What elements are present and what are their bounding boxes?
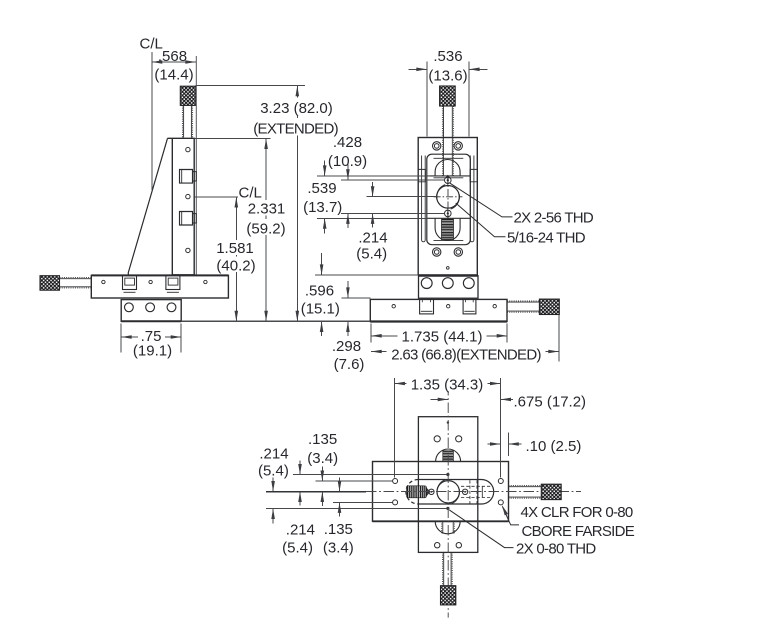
- block-top extension line: [315, 274, 419, 276]
- 1.35 arrowheads: [394, 382, 405, 386]
- 3.23 dimension line: [296, 86, 298, 322]
- svg-text:(EXTENDED): (EXTENDED): [253, 121, 338, 138]
- BV .214 top arrowheads: [298, 464, 302, 475]
- svg-text:(5.4): (5.4): [282, 539, 313, 556]
- base bar (side): [91, 275, 228, 298]
- .596 arrows shafts: [321, 253, 323, 274]
- body mounting holes top: [433, 142, 441, 150]
- stadium slot: [418, 480, 494, 505]
- corner clearance holes 4X: [393, 479, 398, 484]
- svg-text:(59.2): (59.2): [246, 220, 285, 237]
- C/L extension line to circle: [366, 196, 436, 198]
- svg-text:(13.6): (13.6): [428, 68, 467, 85]
- svg-text:(3.4): (3.4): [323, 539, 354, 556]
- svg-text:(3.4): (3.4): [307, 450, 338, 467]
- BV .214 bottom arrowheads: [271, 481, 275, 492]
- lower block with 3 holes: [121, 300, 181, 322]
- 2-56 hole marker top: [446, 473, 449, 476]
- 1.735 dimension line: [371, 335, 507, 337]
- .428 arrow shafts: [347, 165, 349, 180]
- 2.331 arrowheads: [264, 139, 268, 150]
- .536 extension lines: [426, 62, 428, 137]
- lead screw inside dome: [442, 138, 453, 176]
- 2.63 arrowheads: [371, 350, 382, 354]
- .214 bottom arrow shafts: [272, 478, 274, 492]
- svg-text:2.331: 2.331: [248, 201, 286, 218]
- left edge notch: [418, 169, 425, 181]
- svg-text:(15.1): (15.1): [301, 301, 340, 318]
- leader 5/16-24: [456, 203, 506, 237]
- 1.735 extension lines: [370, 324, 372, 343]
- horizontal centerline: [266, 491, 581, 493]
- 2.63 right extension line: [558, 315, 560, 362]
- vertical bracket plate (bottom view): [418, 417, 477, 553]
- 2.63 dimension line: [371, 351, 559, 353]
- .135 top arrow shafts: [321, 467, 323, 481]
- .75 extension lines: [120, 324, 122, 353]
- 5/16-24 threaded hole: [437, 186, 460, 209]
- svg-text:4X CLR FOR 0-80: 4X CLR FOR 0-80: [521, 504, 633, 521]
- .214 arrow shafts: [372, 182, 374, 196]
- 2.331 dimension line: [265, 139, 267, 322]
- 2-56 tapped hole upper: [445, 177, 452, 184]
- .214 top arrow shafts: [299, 461, 301, 475]
- base (front): [370, 299, 507, 321]
- .675 arrowheads: [438, 398, 449, 402]
- 1.581 arrowheads: [235, 197, 239, 208]
- spring pocket arc top: [436, 449, 461, 462]
- bracket holes top pair: [434, 436, 440, 442]
- svg-text:(40.2): (40.2): [216, 258, 255, 275]
- spring pocket U: [435, 218, 460, 240]
- 3-hole block: [419, 276, 479, 299]
- carriage top step line: [434, 157, 464, 159]
- svg-text:CBORE FARSIDE: CBORE FARSIDE: [522, 523, 635, 540]
- svg-text:.539: .539: [307, 180, 336, 197]
- svg-text:.214: .214: [358, 229, 387, 246]
- small holes on base: [392, 305, 395, 308]
- flexure slot left: [422, 156, 426, 242]
- base plate (bottom view): [373, 462, 509, 522]
- threaded shaft below knob: [442, 106, 453, 138]
- svg-text:.675 (17.2): .675 (17.2): [514, 393, 587, 410]
- .298 arrow shafts: [347, 281, 349, 297]
- small holes on base: [102, 280, 105, 283]
- knurled knob top (left view): [180, 86, 195, 105]
- svg-text:1.735 (44.1): 1.735 (44.1): [402, 328, 483, 345]
- .539 arrow shafts: [324, 161, 326, 176]
- .539 arrowheads: [323, 165, 327, 176]
- C/L extension line (left view): [151, 52, 153, 190]
- .10 arrowheads: [490, 442, 501, 446]
- carriage upper shelf: [427, 175, 471, 177]
- drive screw (hatched): [426, 488, 430, 497]
- svg-text:2.63 (66.8)(EXTENDED): 2.63 (66.8)(EXTENDED): [391, 346, 541, 363]
- svg-text:1.581: 1.581: [216, 240, 254, 257]
- small hole right of center: [462, 489, 467, 494]
- svg-text:1.35 (34.3): 1.35 (34.3): [411, 376, 484, 393]
- base-top extension line (front): [341, 297, 370, 299]
- stage body plate (side): [168, 138, 195, 274]
- BV .135 top arrowheads: [321, 471, 325, 482]
- svg-text:.428: .428: [333, 134, 362, 151]
- threaded shaft of base screw: [60, 278, 92, 288]
- bottom shaft: [443, 552, 453, 585]
- 2-56 tapped hole lower: [445, 210, 452, 217]
- .75 arrowheads: [121, 335, 132, 339]
- .536 arrowheads: [416, 68, 427, 72]
- svg-text:2X 0-80 THD: 2X 0-80 THD: [516, 541, 596, 558]
- small hole left of center: [429, 489, 434, 494]
- 4X CLR leader arrowhead: [502, 505, 508, 515]
- threaded shaft below knob: [182, 105, 192, 137]
- white backings for texts crossing lines: [138, 98, 546, 392]
- 1.581 dimension line: [235, 197, 237, 321]
- 0-80 hole marker bottom: [446, 507, 449, 510]
- spring (hatched) top: [443, 451, 454, 462]
- left knurled knob (base screw): [40, 276, 60, 291]
- leader 4X CLR: [502, 506, 519, 525]
- screw clamp block lower: [180, 212, 193, 226]
- svg-text:(7.6): (7.6): [334, 356, 365, 373]
- small dot hole: [447, 267, 450, 270]
- screw tip dot: [447, 421, 449, 423]
- .75 dimension line: [121, 336, 181, 338]
- svg-text:.568: .568: [158, 48, 187, 65]
- 1.35 extension lines: [393, 378, 395, 478]
- body-top extension line: [195, 138, 271, 140]
- leader 2X 2-56: [450, 183, 513, 217]
- stage body outline: [418, 138, 477, 275]
- .675 arrow shafts: [431, 398, 449, 400]
- small holes on plate: [186, 147, 190, 151]
- return spring: [442, 219, 454, 240]
- BV .135 bottom arrowheads: [338, 481, 342, 492]
- svg-text:.214: .214: [286, 521, 315, 538]
- screw inside bottom arc: [442, 521, 455, 533]
- svg-text:3.23 (82.0): 3.23 (82.0): [260, 100, 333, 117]
- hidden clamp lines (far side): [461, 480, 493, 503]
- vertical centerline: [447, 385, 449, 618]
- .568 dimension line: [152, 61, 196, 63]
- .298 arrowheads: [346, 287, 350, 298]
- svg-text:.214: .214: [259, 446, 288, 463]
- .428 arrowheads: [346, 169, 350, 180]
- screw clamp block upper: [180, 170, 193, 184]
- svg-text:C/L: C/L: [239, 184, 262, 201]
- threaded shaft right: [507, 301, 539, 312]
- .596 arrowheads: [320, 264, 324, 275]
- .568 arrowheads: [152, 60, 163, 64]
- knurled knob top (front view): [440, 86, 456, 106]
- clamp housings in base: [123, 275, 180, 292]
- triangular gusset: [128, 138, 167, 274]
- right shaft: [509, 486, 542, 499]
- knob-top extension line: [196, 85, 305, 87]
- .539 extension lines: [317, 175, 430, 177]
- base-bottom extension line: [182, 320, 370, 322]
- svg-text:(14.4): (14.4): [154, 67, 193, 84]
- moving carriage outline: [427, 154, 471, 245]
- svg-text:.596: .596: [305, 282, 334, 299]
- .536 arrow shafts: [409, 68, 427, 70]
- knurled knob bottom: [441, 586, 456, 605]
- carriage lower shelf: [427, 217, 471, 219]
- svg-text:(13.7): (13.7): [303, 199, 342, 216]
- bracket holes bottom pair: [435, 543, 440, 548]
- .10 arrow shafts + tick: [488, 443, 501, 445]
- svg-text:.135: .135: [324, 521, 353, 538]
- svg-text:.10 (2.5): .10 (2.5): [526, 438, 582, 455]
- svg-text:(19.1): (19.1): [133, 342, 172, 359]
- 1.35 dimension line: [394, 383, 500, 385]
- bottom view extension lines left stack: [293, 474, 447, 476]
- knurled knob right (bottom view): [541, 484, 561, 499]
- right edge notch: [470, 169, 477, 181]
- C/L line (left view mid): [194, 196, 238, 198]
- screw dome arc: [435, 159, 460, 175]
- svg-text:2X 2-56 THD: 2X 2-56 THD: [514, 209, 594, 226]
- knurled knob right: [539, 299, 559, 314]
- svg-text:.298: .298: [332, 338, 361, 355]
- svg-text:.536: .536: [433, 48, 462, 65]
- body mounting holes bottom: [433, 248, 441, 256]
- leader 2X 0-80: [449, 510, 513, 548]
- central 5/16 hole: [437, 481, 459, 503]
- .135 bottom arrow shafts: [339, 478, 341, 492]
- svg-text:.135: .135: [308, 431, 337, 448]
- 3.23 arrowheads: [296, 86, 300, 97]
- 1.735 arrowheads: [371, 334, 382, 338]
- clamp housings on base: [420, 299, 476, 314]
- svg-text:(5.4): (5.4): [356, 245, 387, 262]
- .214 arrowheads: [371, 186, 375, 197]
- flexure slot right: [470, 156, 474, 242]
- svg-text:(10.9): (10.9): [328, 153, 367, 170]
- .428 extension lines: [341, 179, 444, 181]
- spring pocket arc bottom: [435, 521, 460, 534]
- svg-text:(5.4): (5.4): [258, 462, 289, 479]
- svg-text:5/16-24 THD: 5/16-24 THD: [507, 229, 586, 246]
